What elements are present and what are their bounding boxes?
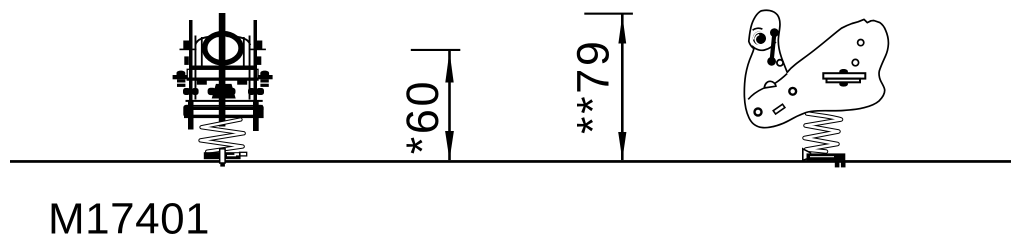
swan: beak curl spiral xyxy=(753,31,767,45)
dim79: vertical line xyxy=(621,14,624,160)
swan: body outline xyxy=(744,10,888,127)
front: left handle plate xyxy=(173,75,188,79)
front: left outer post xyxy=(189,20,193,102)
swan: base bracket xyxy=(803,149,811,161)
swan: seat plate bolt xyxy=(789,88,796,95)
front: footrest bar xyxy=(184,107,264,110)
front: hanging tab left xyxy=(197,80,207,84)
front: post segments over tube xyxy=(219,69,226,81)
front: dome bolt row xyxy=(183,88,190,95)
front: upper crossbar tube xyxy=(186,100,263,102)
front: ring xyxy=(205,34,241,63)
swan: body bolt lower xyxy=(852,59,858,65)
swan: seat bump xyxy=(764,81,776,88)
swan: handle xyxy=(770,28,779,37)
dim60: top tick xyxy=(411,49,461,51)
front: right post bolt upper xyxy=(256,41,262,50)
front: right outer post xyxy=(254,20,258,102)
front: left post bolt upper xyxy=(183,41,189,50)
swan: body bolt upper xyxy=(858,40,864,46)
front: right shoulder arc xyxy=(226,36,250,45)
front: hanging tab right xyxy=(237,80,247,84)
dim60: top arrow xyxy=(445,51,453,82)
front: under-ring bar xyxy=(190,66,257,70)
front: left handle dome xyxy=(177,71,186,75)
front: right inner tube xyxy=(249,36,251,100)
swan: handle small ring xyxy=(777,60,783,66)
swan: footrest upper bar xyxy=(823,73,865,78)
swan: base foot left xyxy=(835,160,840,167)
swan: base plate xyxy=(807,153,846,160)
dim60: vertical line xyxy=(448,50,451,160)
front: spring xyxy=(201,120,244,152)
dim79: top tick xyxy=(584,13,633,15)
swan: saddle slot xyxy=(773,104,785,114)
swan: footrest bottom bump xyxy=(839,82,848,86)
front: right post bolt lower xyxy=(257,56,262,65)
svg-text:**79: **79 xyxy=(568,39,619,134)
front: seat mount trapezoid xyxy=(212,84,236,99)
front: left inner tube xyxy=(195,36,197,100)
front: left leg lower xyxy=(188,100,194,130)
front: left shoulder arc xyxy=(195,36,219,45)
front: ring frame left line xyxy=(201,37,203,66)
swan: base foot right xyxy=(841,160,846,167)
dim79: top arrow xyxy=(618,15,626,44)
front: central post xyxy=(219,13,226,127)
swan: chin arc xyxy=(752,42,776,51)
svg-text:*60: *60 xyxy=(397,79,448,154)
front: base right flange xyxy=(240,152,247,156)
front: right handle plate xyxy=(258,75,273,79)
swan: seat joint line xyxy=(748,74,787,100)
front: left handle nut xyxy=(177,79,185,87)
front: ring frame right line xyxy=(243,37,245,66)
front: left post bolt lower xyxy=(184,56,189,65)
swan: footrest lower bar xyxy=(827,79,861,83)
front: base plate xyxy=(204,152,241,159)
dim79: bottom arrow xyxy=(618,132,626,160)
front: right handle nut xyxy=(260,79,268,87)
svg-text:M17401: M17401 xyxy=(48,195,210,244)
swan: spring xyxy=(805,114,842,152)
swan: saddle bolt xyxy=(755,109,762,116)
dim60: bottom arrow xyxy=(445,131,454,160)
front: right handle dome xyxy=(260,71,269,75)
front: footrest left cap xyxy=(183,105,190,117)
swan: footrest top bump xyxy=(839,69,848,73)
front: base pin xyxy=(220,149,225,163)
ground line xyxy=(10,160,1011,163)
front: plate line left xyxy=(180,49,197,51)
front: handlebar tube xyxy=(187,69,258,80)
front: plate line right xyxy=(249,49,266,51)
front: right leg lower xyxy=(253,100,259,131)
front: handlebar tube bottom edge xyxy=(187,78,258,81)
front: footrest right cap xyxy=(256,105,264,117)
